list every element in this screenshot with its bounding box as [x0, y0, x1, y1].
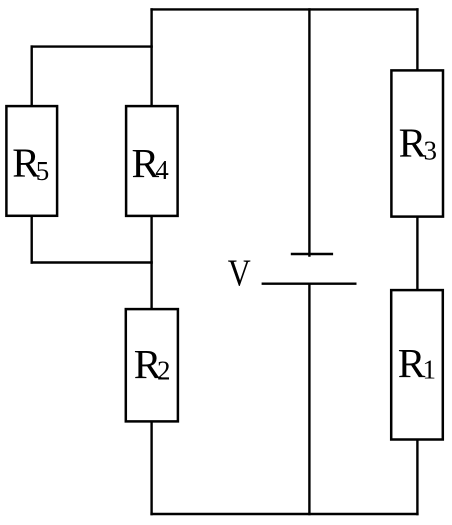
resistor R5 body: [6, 106, 57, 216]
wire: R5 bottom lead: [31, 216, 33, 263]
wire: R5/R4 bottom junction bus: [32, 261, 152, 263]
wire: battery bottom vertical: [308, 284, 310, 514]
wire: R3 to R1 vertical: [416, 217, 418, 291]
label R4: [132, 140, 170, 186]
label R5: [12, 140, 49, 186]
svg-text:3: 3: [424, 135, 438, 165]
wire: R1 bottom lead: [416, 440, 418, 515]
wire: R4 to R2 vertical: [150, 216, 152, 309]
svg-text:5: 5: [36, 156, 50, 186]
svg-text:2: 2: [157, 356, 171, 386]
svg-text:R: R: [399, 120, 427, 166]
label R2: [134, 341, 171, 387]
wire: battery top vertical: [308, 9, 310, 255]
wire: right branch vertical (top bus to R3): [416, 9, 418, 70]
resistor R4 body: [126, 106, 178, 216]
wire: R2 bottom lead: [150, 421, 152, 514]
label R1: [398, 340, 436, 386]
resistor R1 body: [391, 290, 443, 439]
wire: R5 top lead: [31, 47, 33, 107]
resistor R3 body: [391, 70, 443, 216]
resistor R2 body: [126, 309, 178, 421]
svg-text:1: 1: [423, 355, 437, 385]
wire: bottom bus: [152, 513, 418, 515]
svg-text:V: V: [228, 252, 251, 294]
label R3: [399, 120, 437, 166]
battery V: short (negative) plate: [292, 253, 332, 255]
svg-text:4: 4: [155, 155, 169, 185]
wire: top bus: [152, 8, 418, 10]
wire: left branch vertical (top bus to R4): [150, 9, 152, 106]
wire: R5 branch horizontal bus: [32, 45, 152, 47]
battery V: long (positive) plate: [263, 283, 356, 285]
